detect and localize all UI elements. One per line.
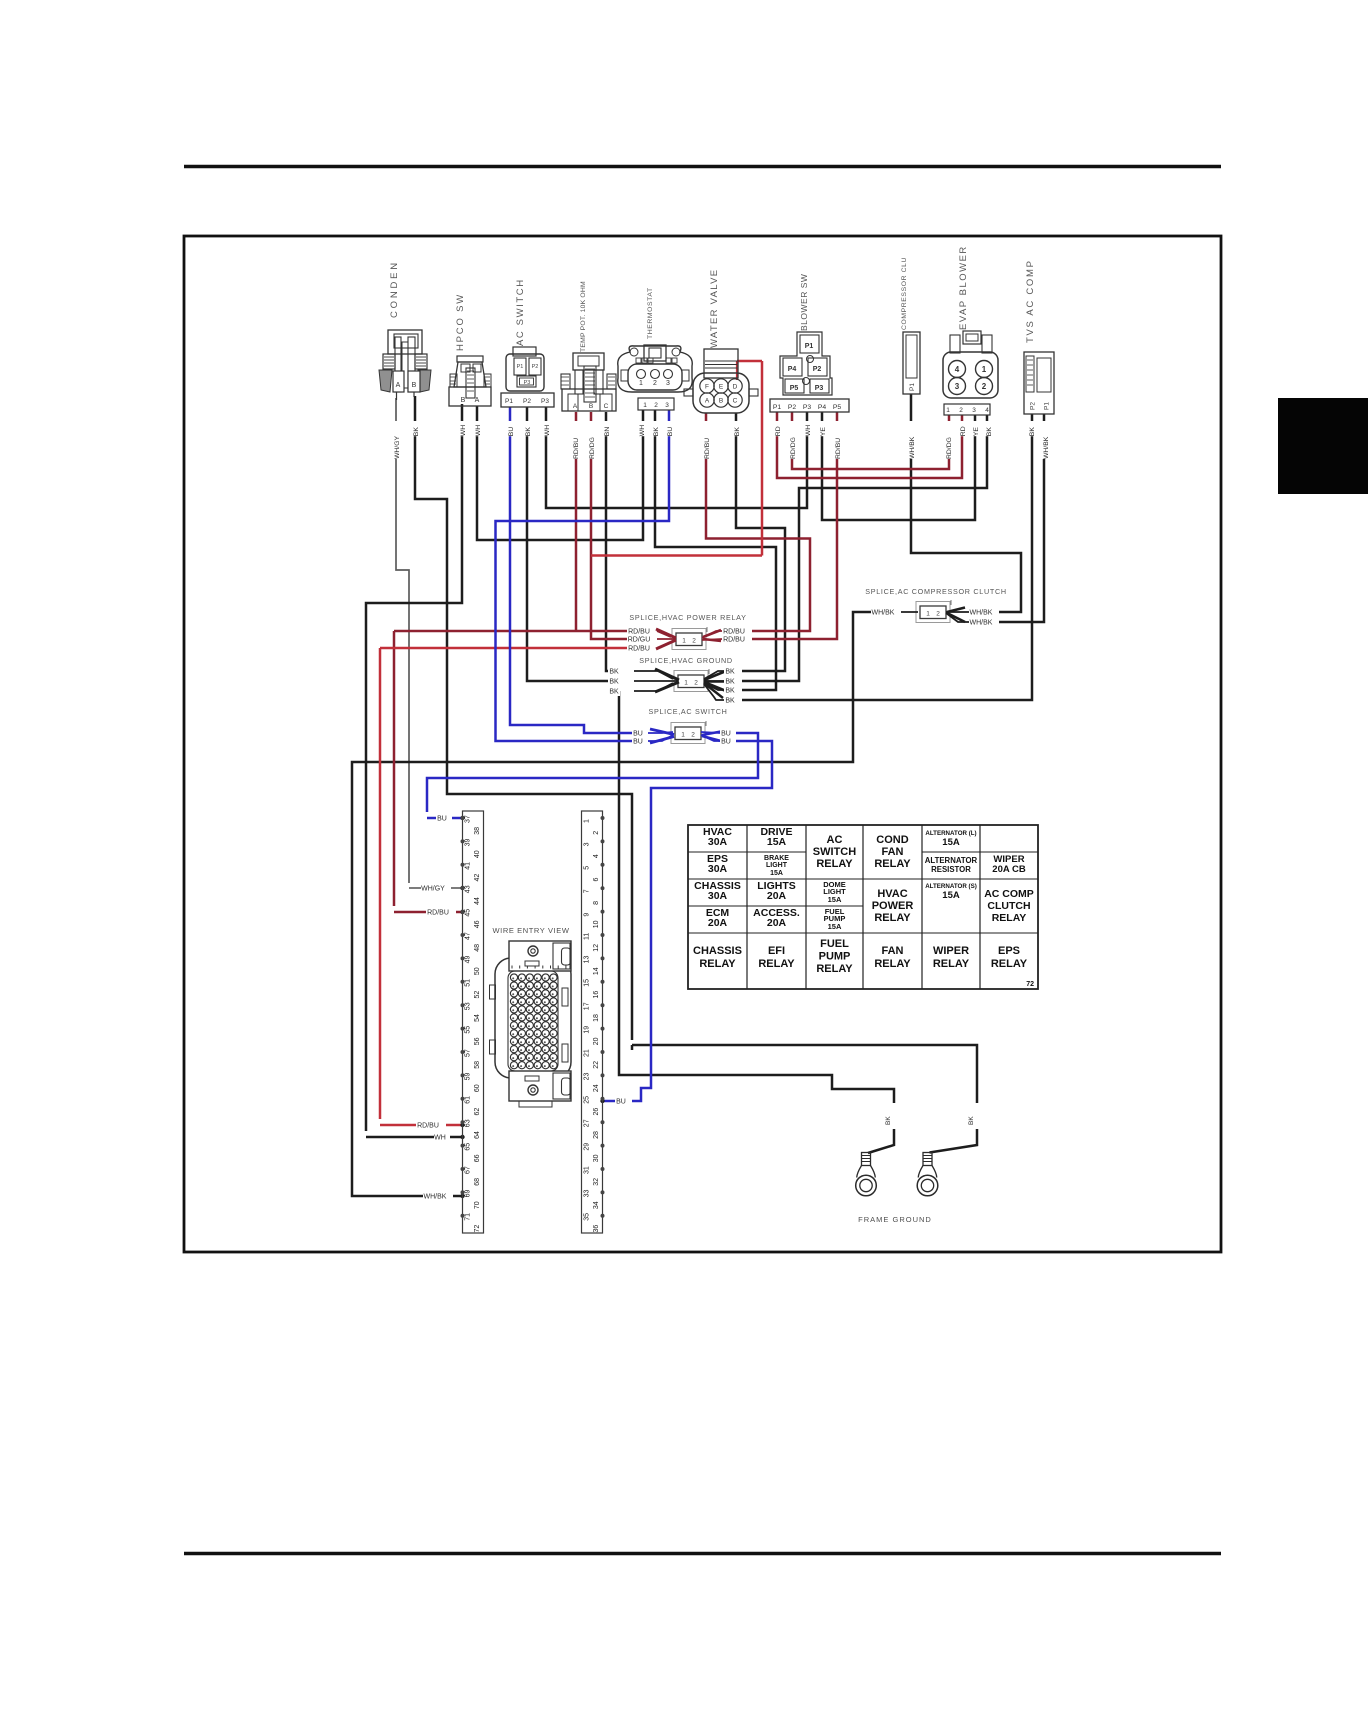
svg-text:WH/GY: WH/GY [394, 436, 401, 459]
svg-text:9: 9 [583, 913, 590, 917]
svg-text:RD/DG: RD/DG [790, 437, 797, 459]
svg-text:2: 2 [694, 680, 698, 687]
svg-text:C: C [733, 398, 738, 405]
svg-text:RD/DG: RD/DG [589, 437, 596, 459]
svg-text:EVAP BLOWER: EVAP BLOWER [958, 245, 969, 330]
svg-text:BK: BK [609, 669, 619, 676]
svg-text:COMPRESSOR CLU: COMPRESSOR CLU [901, 257, 908, 330]
svg-text:BU: BU [616, 1099, 626, 1106]
svg-text:5: 5 [583, 866, 590, 870]
svg-text:50: 50 [474, 967, 481, 975]
svg-text:3: 3 [583, 842, 590, 846]
svg-text:BK: BK [1029, 427, 1036, 437]
svg-text:P1: P1 [773, 404, 782, 411]
svg-text:EFI: EFI [768, 945, 785, 957]
svg-text:41: 41 [464, 862, 471, 870]
svg-text:BU: BU [437, 816, 447, 823]
svg-text:P4: P4 [788, 366, 797, 373]
svg-text:RD: RD [775, 426, 782, 436]
svg-text:57: 57 [464, 1049, 471, 1057]
svg-text:2: 2 [959, 407, 963, 414]
svg-text:2: 2 [593, 831, 600, 835]
svg-text:71: 71 [464, 1213, 471, 1221]
svg-text:RELAY: RELAY [992, 912, 1027, 924]
svg-text:CHASSIS: CHASSIS [693, 945, 742, 957]
svg-text:P1: P1 [909, 383, 916, 391]
svg-text:P3: P3 [815, 385, 824, 392]
svg-text:RELAY: RELAY [874, 858, 911, 870]
svg-text:RD/GU: RD/GU [628, 637, 651, 644]
svg-text:E: E [719, 384, 724, 391]
svg-text:1: 1 [681, 732, 685, 739]
svg-text:WATER VALVE: WATER VALVE [709, 269, 720, 348]
svg-text:68: 68 [474, 1178, 481, 1186]
svg-text:66: 66 [474, 1154, 481, 1162]
svg-text:1: 1 [583, 819, 590, 823]
svg-text:P1: P1 [805, 343, 814, 350]
svg-text:BK: BK [609, 689, 619, 696]
svg-text:BK: BK [609, 679, 619, 686]
svg-text:37: 37 [464, 815, 471, 823]
svg-text:22: 22 [593, 1061, 600, 1069]
svg-text:P1: P1 [505, 398, 513, 405]
svg-text:27: 27 [583, 1119, 590, 1127]
svg-text:WIPER: WIPER [933, 945, 969, 957]
svg-text:20A CB: 20A CB [992, 864, 1026, 875]
svg-text:49: 49 [464, 956, 471, 964]
svg-text:B: B [412, 382, 417, 389]
svg-text:2: 2 [982, 382, 987, 391]
svg-text:COND: COND [876, 834, 908, 846]
svg-text:14: 14 [593, 967, 600, 975]
svg-text:P4: P4 [818, 404, 827, 411]
svg-text:HVAC: HVAC [877, 888, 907, 900]
svg-text:RD/BU: RD/BU [417, 1123, 439, 1130]
svg-text:TEMP POT. 10K OHM: TEMP POT. 10K OHM [580, 281, 587, 352]
svg-text:15A: 15A [942, 890, 960, 901]
svg-text:33: 33 [583, 1190, 590, 1198]
svg-text:FAN: FAN [882, 846, 904, 858]
svg-text:SPLICE,HVAC POWER RELAY: SPLICE,HVAC POWER RELAY [629, 613, 746, 622]
svg-text:B: B [589, 403, 593, 410]
svg-text:B: B [461, 397, 466, 404]
svg-text:A: A [396, 382, 401, 389]
svg-text:34: 34 [593, 1201, 600, 1209]
svg-text:28: 28 [593, 1131, 600, 1139]
svg-text:YE: YE [973, 427, 980, 437]
svg-text:18: 18 [593, 1014, 600, 1022]
svg-text:51: 51 [464, 979, 471, 987]
svg-text:WH/BK: WH/BK [909, 436, 916, 459]
svg-text:CLUTCH: CLUTCH [987, 900, 1030, 912]
svg-text:15: 15 [583, 979, 590, 987]
svg-text:30: 30 [593, 1154, 600, 1162]
svg-text:P3: P3 [803, 404, 812, 411]
svg-text:40: 40 [474, 850, 481, 858]
svg-text:61: 61 [464, 1096, 471, 1104]
svg-text:RD/DG: RD/DG [946, 437, 953, 459]
svg-text:1: 1 [639, 380, 643, 387]
svg-text:12: 12 [593, 944, 600, 952]
svg-text:46: 46 [474, 920, 481, 928]
svg-text:8: 8 [593, 901, 600, 905]
svg-text:POWER: POWER [872, 900, 914, 912]
svg-text:13: 13 [583, 956, 590, 964]
svg-text:BK: BK [525, 427, 532, 437]
svg-text:RELAY: RELAY [874, 958, 911, 970]
svg-text:WH/BK: WH/BK [872, 610, 895, 617]
svg-text:44: 44 [474, 897, 481, 905]
svg-text:52: 52 [474, 991, 481, 999]
svg-text:BK: BK [725, 688, 735, 695]
svg-text:SPLICE,HVAC GROUND: SPLICE,HVAC GROUND [639, 656, 733, 665]
svg-text:BK: BK [885, 1116, 892, 1125]
svg-text:10: 10 [593, 920, 600, 928]
svg-text:1: 1 [982, 365, 987, 374]
svg-text:AC: AC [827, 834, 843, 846]
svg-text:4: 4 [955, 365, 960, 374]
svg-text:WH/GY: WH/GY [421, 886, 445, 893]
svg-text:RELAY: RELAY [758, 958, 795, 970]
svg-text:A: A [475, 397, 480, 404]
svg-text:38: 38 [474, 827, 481, 835]
svg-text:RD/BU: RD/BU [628, 646, 650, 653]
svg-text:P2: P2 [813, 366, 822, 373]
svg-text:BK: BK [413, 427, 420, 437]
svg-text:BLOWER SW: BLOWER SW [799, 274, 809, 331]
svg-text:THERMOSTAT: THERMOSTAT [647, 287, 654, 339]
svg-text:RD/BU: RD/BU [704, 438, 711, 459]
svg-text:26: 26 [593, 1108, 600, 1116]
svg-text:C: C [604, 403, 609, 410]
svg-text:P5: P5 [790, 385, 799, 392]
svg-text:ALTERNATOR: ALTERNATOR [925, 856, 978, 865]
svg-text:WH: WH [544, 425, 551, 436]
svg-text:P3: P3 [541, 398, 549, 405]
svg-text:WH: WH [475, 425, 482, 436]
svg-text:TVS AC COMP: TVS AC COMP [1025, 259, 1036, 343]
svg-text:ALTERNATOR (S): ALTERNATOR (S) [925, 883, 977, 890]
svg-text:1: 1 [926, 611, 930, 618]
svg-text:A: A [573, 403, 578, 410]
svg-text:55: 55 [464, 1026, 471, 1034]
svg-text:43: 43 [464, 885, 471, 893]
svg-text:BK: BK [986, 427, 993, 437]
svg-text:P1: P1 [517, 364, 524, 370]
svg-text:2: 2 [653, 380, 657, 387]
svg-text:58: 58 [474, 1061, 481, 1069]
svg-text:WIRE ENTRY VIEW: WIRE ENTRY VIEW [492, 926, 569, 935]
svg-text:35: 35 [583, 1213, 590, 1221]
svg-text:24: 24 [593, 1084, 600, 1092]
svg-text:WH: WH [805, 425, 812, 436]
svg-text:45: 45 [464, 909, 471, 917]
svg-text:RESISTOR: RESISTOR [931, 865, 971, 874]
svg-text:11: 11 [583, 933, 590, 940]
svg-text:64: 64 [474, 1131, 481, 1139]
svg-text:P2: P2 [1030, 402, 1037, 410]
svg-text:2: 2 [936, 611, 940, 618]
svg-text:BRAKE: BRAKE [764, 855, 789, 862]
svg-text:2: 2 [692, 638, 696, 645]
svg-text:BU: BU [633, 739, 643, 746]
svg-text:36: 36 [593, 1225, 600, 1233]
svg-text:20A: 20A [708, 917, 728, 929]
svg-text:59: 59 [464, 1073, 471, 1081]
svg-text:P3: P3 [524, 380, 531, 386]
svg-text:ALTERNATOR (L): ALTERNATOR (L) [925, 830, 976, 837]
svg-text:AC COMP: AC COMP [984, 888, 1034, 900]
svg-text:RELAY: RELAY [991, 958, 1028, 970]
svg-text:RD/BU: RD/BU [835, 438, 842, 459]
svg-text:15A: 15A [767, 836, 787, 848]
svg-text:21: 21 [583, 1049, 590, 1057]
svg-text:AC SWITCH: AC SWITCH [515, 278, 526, 346]
svg-text:WH/BK: WH/BK [970, 610, 993, 617]
svg-text:HPCO SW: HPCO SW [455, 293, 466, 351]
svg-text:69: 69 [464, 1190, 471, 1198]
svg-text:6: 6 [593, 878, 600, 882]
svg-text:20: 20 [593, 1037, 600, 1045]
svg-text:RELAY: RELAY [816, 858, 853, 870]
svg-text:WH/BK: WH/BK [970, 620, 993, 627]
svg-text:25: 25 [583, 1096, 590, 1104]
svg-text:60: 60 [474, 1084, 481, 1092]
svg-text:FUEL: FUEL [820, 938, 849, 950]
svg-text:BN: BN [604, 427, 611, 437]
svg-text:1: 1 [682, 638, 686, 645]
svg-text:BU: BU [508, 427, 515, 437]
svg-text:7: 7 [583, 889, 590, 893]
svg-text:56: 56 [474, 1037, 481, 1045]
svg-text:16: 16 [593, 991, 600, 999]
svg-text:SWITCH: SWITCH [813, 846, 856, 858]
svg-text:BK: BK [968, 1116, 975, 1125]
svg-text:39: 39 [464, 839, 471, 847]
svg-text:BK: BK [653, 427, 660, 437]
svg-text:15A: 15A [770, 870, 783, 877]
svg-text:20A: 20A [767, 917, 787, 929]
svg-text:15A: 15A [828, 895, 842, 904]
svg-text:RD/BU: RD/BU [723, 637, 745, 644]
svg-text:WH: WH [639, 425, 646, 436]
svg-text:BK: BK [734, 427, 741, 437]
svg-text:32: 32 [593, 1178, 600, 1186]
svg-text:54: 54 [474, 1014, 481, 1022]
svg-text:15A: 15A [942, 837, 960, 848]
svg-text:D: D [733, 384, 738, 391]
svg-text:P5: P5 [833, 404, 842, 411]
svg-text:WH/BK: WH/BK [424, 1194, 447, 1201]
svg-text:RELAY: RELAY [699, 958, 736, 970]
svg-text:RD/BU: RD/BU [573, 438, 580, 459]
svg-text:F: F [705, 384, 709, 391]
svg-text:BK: BK [725, 698, 735, 705]
svg-text:3: 3 [665, 402, 669, 409]
svg-text:23: 23 [583, 1073, 590, 1081]
svg-text:BK: BK [725, 669, 735, 676]
svg-text:2: 2 [691, 732, 695, 739]
svg-text:2: 2 [654, 402, 658, 409]
svg-text:65: 65 [464, 1143, 471, 1151]
svg-text:FAN: FAN [882, 945, 904, 957]
svg-text:YE: YE [820, 427, 827, 437]
svg-text:RD/BU: RD/BU [427, 910, 449, 917]
svg-text:1: 1 [946, 407, 950, 414]
svg-text:WH/BK: WH/BK [1043, 436, 1050, 459]
svg-text:3: 3 [666, 380, 670, 387]
svg-text:63: 63 [464, 1119, 471, 1127]
svg-text:A: A [705, 398, 710, 405]
svg-text:72: 72 [474, 1225, 481, 1233]
svg-text:4: 4 [593, 854, 600, 858]
svg-text:SPLICE,AC SWITCH: SPLICE,AC SWITCH [648, 707, 727, 716]
svg-text:WH: WH [434, 1135, 446, 1142]
svg-text:BU: BU [667, 427, 674, 437]
svg-text:BU: BU [721, 739, 731, 746]
svg-text:19: 19 [583, 1026, 590, 1034]
svg-text:70: 70 [474, 1201, 481, 1209]
svg-text:RELAY: RELAY [816, 963, 853, 975]
svg-text:P2: P2 [523, 398, 531, 405]
svg-text:30A: 30A [708, 863, 728, 875]
svg-text:20A: 20A [767, 890, 787, 902]
svg-text:29: 29 [583, 1143, 590, 1151]
svg-text:67: 67 [464, 1166, 471, 1174]
svg-text:B: B [719, 398, 723, 405]
svg-text:72: 72 [1026, 981, 1034, 988]
svg-text:EPS: EPS [998, 945, 1020, 957]
svg-text:BK: BK [725, 679, 735, 686]
svg-text:3: 3 [955, 382, 960, 391]
svg-text:48: 48 [474, 944, 481, 952]
svg-text:SPLICE,AC COMPRESSOR CLUTCH: SPLICE,AC COMPRESSOR CLUTCH [865, 587, 1007, 596]
svg-text:15A: 15A [828, 922, 842, 931]
svg-text:31: 31 [583, 1166, 590, 1174]
svg-text:17: 17 [583, 1002, 590, 1010]
svg-text:RELAY: RELAY [874, 912, 911, 924]
svg-text:53: 53 [464, 1002, 471, 1010]
svg-text:FRAME GROUND: FRAME GROUND [858, 1215, 932, 1224]
svg-text:LIGHT: LIGHT [766, 862, 788, 869]
svg-text:30A: 30A [708, 836, 728, 848]
svg-text:P1: P1 [1044, 402, 1051, 410]
svg-text:62: 62 [474, 1108, 481, 1116]
svg-text:1: 1 [684, 680, 688, 687]
svg-text:CONDEN: CONDEN [389, 260, 400, 318]
svg-text:RD: RD [960, 426, 967, 436]
svg-text:47: 47 [464, 932, 471, 940]
svg-text:1: 1 [643, 402, 647, 409]
svg-text:30A: 30A [708, 890, 728, 902]
svg-text:P2: P2 [532, 364, 539, 370]
svg-text:4: 4 [985, 407, 989, 414]
svg-text:3: 3 [972, 407, 976, 414]
svg-text:RELAY: RELAY [933, 958, 970, 970]
svg-text:WH: WH [460, 425, 467, 436]
svg-text:PUMP: PUMP [819, 951, 851, 963]
svg-text:42: 42 [474, 874, 481, 882]
svg-text:P2: P2 [788, 404, 797, 411]
